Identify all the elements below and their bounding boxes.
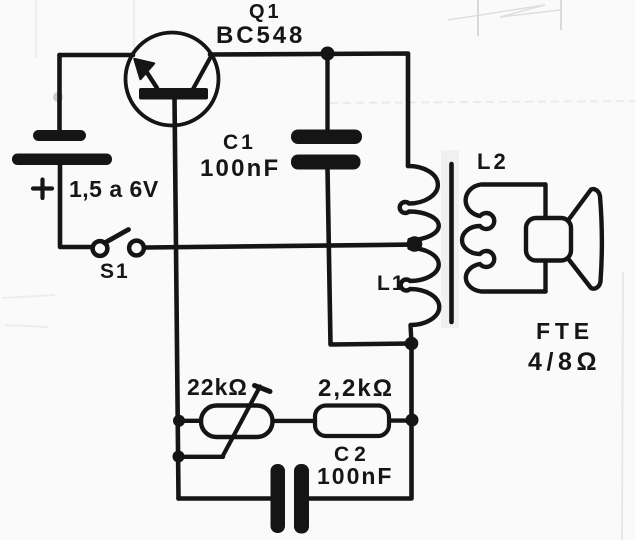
- wire L1 bottom to R network: [309, 344, 412, 499]
- svg-text:22kΩ: 22kΩ: [187, 374, 248, 400]
- wire L2 bottom to speaker: [543, 258, 547, 292]
- node junction dot base/R1: [173, 415, 185, 427]
- wire R2 right lead: [389, 418, 407, 422]
- svg-text:L1: L1: [377, 272, 406, 295]
- transistor Q1 circle: [126, 33, 219, 126]
- svg-text:2,2kΩ: 2,2kΩ: [318, 375, 394, 402]
- svg-text:1,5 a 6V: 1,5 a 6V: [69, 176, 159, 202]
- capacitor C2 plate left: [271, 464, 286, 533]
- svg-text:100nF: 100nF: [200, 155, 280, 182]
- transistor Q1 collector line: [193, 56, 212, 90]
- wire top-right horizontal (collector to L1 top): [210, 54, 408, 167]
- wire wiper to base line: [183, 455, 223, 459]
- speaker horn cone: [568, 189, 602, 289]
- node junction dot right of R2: [406, 414, 419, 427]
- wire battery bottom lead: [60, 164, 91, 247]
- resistor R1 wiper arrow diagonal: [223, 387, 261, 457]
- wire R1 left lead: [183, 419, 201, 423]
- wire C1 bottom lead down and right to L1 bottom: [328, 169, 412, 345]
- wire L2 top to speaker: [543, 185, 547, 221]
- transformer core line: [449, 164, 454, 322]
- resistor R1 wiper arrow flag: [255, 386, 271, 392]
- speaker magnet box: [526, 218, 571, 261]
- svg-text:BC548: BC548: [216, 22, 305, 49]
- svg-text:S1: S1: [100, 260, 130, 283]
- capacitor C1 plate bottom: [291, 155, 361, 170]
- battery B1 plate (short): [33, 130, 86, 141]
- transistor Q1 base bar: [139, 88, 208, 100]
- switch S1 contact circle left: [93, 241, 108, 256]
- switch S1 contact circle right: [129, 241, 144, 256]
- svg-text:4/8Ω: 4/8Ω: [528, 348, 601, 376]
- svg-text:Q1: Q1: [249, 1, 282, 23]
- wire between R1 and R2: [273, 419, 316, 423]
- capacitor C1 plate top: [291, 130, 362, 145]
- inductor L1 winding: [400, 166, 440, 344]
- capacitor C2 plate right: [294, 464, 309, 534]
- transistor Q1 emitter arrowhead: [135, 59, 155, 79]
- resistor R2 2,2k body: [315, 406, 389, 437]
- wire top-left horizontal (battery + to Q1 emitter): [60, 53, 134, 58]
- wire C1 top lead: [325, 54, 329, 131]
- wire Q1 base lead down to bottom rail: [175, 97, 179, 499]
- svg-text:FTE: FTE: [536, 318, 594, 344]
- wire switch to L1 tap: [146, 245, 412, 248]
- node L1 bottom junction dot: [405, 337, 419, 351]
- battery plus sign: [33, 180, 52, 199]
- inductor L2 winding: [462, 185, 546, 292]
- resistor R1 22k body: [201, 406, 273, 438]
- switch S1 lever: [105, 230, 129, 244]
- svg-text:C1: C1: [223, 131, 256, 154]
- svg-text:100nF: 100nF: [317, 463, 393, 489]
- wire battery top lead: [57, 55, 62, 131]
- node L1 tap junction dot: [407, 236, 423, 252]
- node junction dot base/wiper: [173, 451, 185, 463]
- node junction dot at C1 top: [321, 47, 335, 61]
- svg-text:L2: L2: [477, 149, 509, 174]
- transistor Q1 emitter line: [144, 68, 157, 88]
- battery B1 plate (positive, long): [12, 154, 112, 166]
- wire bottom rail left: [179, 496, 272, 501]
